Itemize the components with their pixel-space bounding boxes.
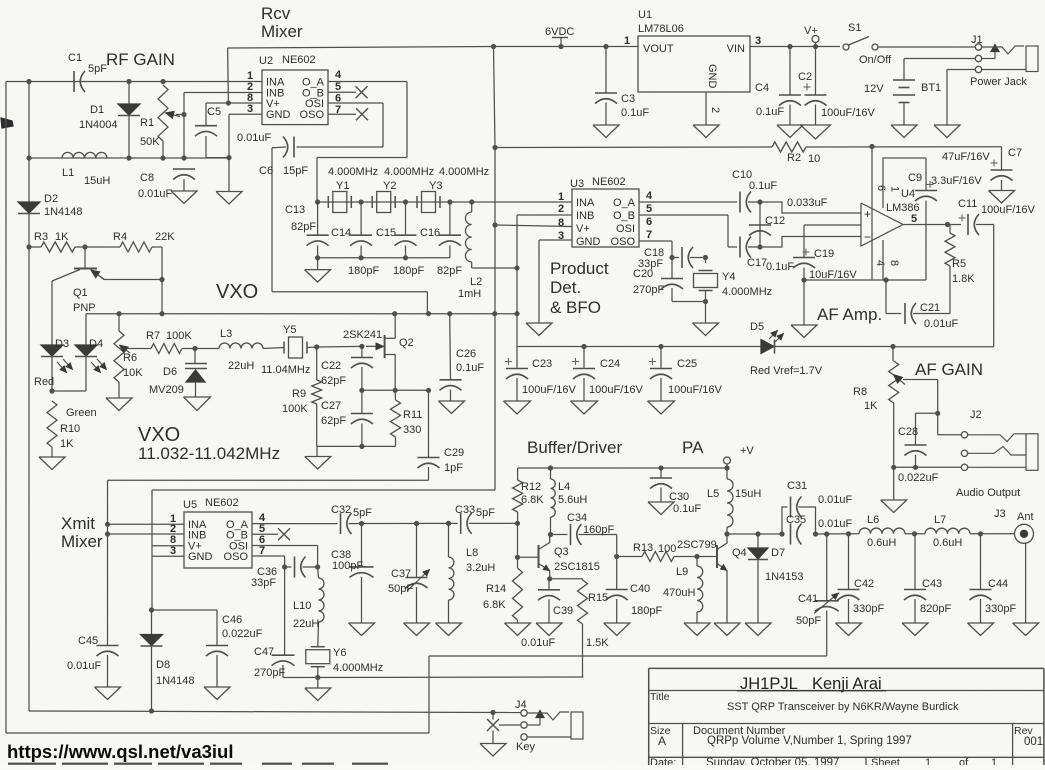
- svg-text:C26: C26: [456, 348, 476, 360]
- svg-text:1K: 1K: [55, 231, 69, 243]
- svg-text:Audio Output: Audio Output: [956, 487, 1020, 499]
- svg-text:3: 3: [170, 545, 176, 557]
- svg-text:4.000MHz: 4.000MHz: [333, 662, 383, 674]
- svg-text:100K: 100K: [166, 330, 192, 342]
- svg-text:L10: L10: [293, 600, 311, 612]
- svg-text:RF GAIN: RF GAIN: [106, 50, 175, 69]
- svg-text:0.6uH: 0.6uH: [933, 537, 962, 549]
- svg-text:C8: C8: [140, 172, 154, 184]
- svg-text:−: −: [864, 230, 871, 244]
- svg-text:0.1uF: 0.1uF: [756, 106, 784, 118]
- svg-text:L7: L7: [934, 514, 946, 526]
- svg-text:L4: L4: [558, 481, 570, 493]
- svg-text:C9: C9: [908, 172, 922, 184]
- svg-text:C45: C45: [78, 635, 98, 647]
- svg-text:OSI: OSI: [616, 223, 635, 235]
- svg-text:100uF/16V: 100uF/16V: [981, 204, 1035, 216]
- svg-text:C44: C44: [988, 578, 1008, 590]
- svg-text:VXO: VXO: [138, 424, 180, 446]
- svg-text:Title: Title: [650, 691, 670, 703]
- svg-text:Ant: Ant: [1017, 511, 1034, 523]
- svg-text:R8: R8: [853, 386, 867, 398]
- svg-text:1.8K: 1.8K: [952, 273, 975, 285]
- svg-text:GND: GND: [706, 64, 718, 89]
- svg-text:0.01uF: 0.01uF: [67, 660, 102, 672]
- svg-text:L8: L8: [466, 547, 478, 559]
- svg-text:LM78L06: LM78L06: [638, 23, 684, 35]
- svg-text:R11: R11: [403, 409, 422, 421]
- svg-text:Rcv: Rcv: [261, 4, 291, 23]
- svg-text:0.022uF: 0.022uF: [898, 472, 939, 484]
- svg-text:10K: 10K: [123, 367, 143, 379]
- svg-text:0.1uF: 0.1uF: [749, 180, 777, 192]
- svg-text:O_B: O_B: [613, 210, 635, 222]
- svg-text:10uF/16V: 10uF/16V: [809, 269, 857, 281]
- svg-text:D1: D1: [90, 104, 104, 116]
- svg-text:50pF: 50pF: [796, 615, 821, 627]
- svg-text:4.000MHz: 4.000MHz: [722, 286, 772, 298]
- svg-text:C41: C41: [798, 593, 818, 605]
- svg-text:5: 5: [911, 213, 917, 225]
- svg-text:100uF/16V: 100uF/16V: [522, 384, 576, 396]
- svg-text:0.1uF: 0.1uF: [621, 107, 649, 119]
- svg-text:C33: C33: [455, 504, 475, 516]
- svg-text:1: 1: [558, 191, 564, 203]
- svg-text:6VDC: 6VDC: [545, 26, 574, 38]
- svg-text:6.8K: 6.8K: [483, 599, 506, 611]
- svg-text:15pF: 15pF: [283, 165, 308, 177]
- svg-text:+: +: [864, 207, 871, 221]
- svg-text:6: 6: [875, 185, 887, 191]
- svg-text:100: 100: [658, 543, 676, 555]
- svg-text:Y5: Y5: [283, 324, 296, 336]
- svg-text:1N4148: 1N4148: [44, 206, 83, 218]
- svg-text:MV209: MV209: [149, 384, 184, 396]
- svg-text:12V: 12V: [864, 83, 884, 95]
- svg-text:https://www.qsl.net/va3iul: https://www.qsl.net/va3iul: [7, 741, 233, 762]
- svg-text:O_A: O_A: [613, 197, 636, 209]
- svg-text:5pF: 5pF: [476, 507, 495, 519]
- svg-text:Sunday, October 05, 1997: Sunday, October 05, 1997: [706, 757, 839, 765]
- svg-text:Q2: Q2: [399, 337, 414, 349]
- svg-text:L9: L9: [676, 566, 688, 578]
- svg-text:INA: INA: [576, 197, 595, 209]
- svg-text:NE602: NE602: [592, 176, 626, 188]
- svg-text:NE602: NE602: [282, 54, 316, 66]
- svg-text:4.000MHz: 4.000MHz: [384, 166, 434, 178]
- svg-text:3: 3: [247, 103, 253, 115]
- svg-text:C21: C21: [920, 302, 940, 314]
- svg-text:Q3: Q3: [554, 546, 569, 558]
- svg-text:R10: R10: [60, 423, 80, 435]
- svg-text:82pF: 82pF: [437, 265, 462, 277]
- svg-text:0.01uF: 0.01uF: [138, 188, 173, 200]
- svg-text:R5: R5: [952, 258, 966, 270]
- svg-text:C32: C32: [331, 504, 351, 516]
- svg-text:NE602: NE602: [205, 497, 239, 509]
- svg-text:GND: GND: [188, 551, 213, 563]
- svg-text:C42: C42: [854, 578, 874, 590]
- svg-text:U4: U4: [901, 188, 915, 200]
- svg-text:J4: J4: [515, 699, 527, 711]
- svg-text:V+: V+: [804, 25, 818, 37]
- svg-text:C6: C6: [259, 165, 273, 177]
- svg-text:15uH: 15uH: [735, 488, 761, 500]
- svg-text:Q4: Q4: [732, 547, 747, 559]
- svg-text:D7: D7: [771, 547, 785, 559]
- svg-text:C22: C22: [321, 360, 341, 372]
- svg-text:OSO: OSO: [300, 109, 325, 121]
- svg-text:33pF: 33pF: [251, 577, 276, 589]
- svg-text:001: 001: [1024, 736, 1043, 748]
- svg-text:4.000MHz: 4.000MHz: [328, 166, 378, 178]
- svg-text:D8: D8: [156, 659, 170, 671]
- svg-text:1N4004: 1N4004: [79, 119, 118, 131]
- svg-text:C46: C46: [222, 614, 242, 626]
- svg-text:C25: C25: [677, 358, 697, 370]
- svg-text:PNP: PNP: [73, 302, 96, 314]
- svg-text:8: 8: [558, 217, 564, 229]
- svg-text:L2: L2: [470, 276, 482, 288]
- svg-text:& BFO: & BFO: [550, 298, 601, 317]
- svg-text:100uF/16V: 100uF/16V: [589, 384, 643, 396]
- svg-text:62pF: 62pF: [321, 415, 346, 427]
- svg-text:0.01uF: 0.01uF: [818, 494, 853, 506]
- svg-text:82pF: 82pF: [291, 221, 316, 233]
- svg-text:C30: C30: [669, 491, 689, 503]
- svg-text:Mixer: Mixer: [61, 532, 103, 551]
- svg-text:Q1: Q1: [73, 287, 88, 299]
- svg-text:C35: C35: [786, 514, 806, 526]
- svg-text:Buffer/Driver: Buffer/Driver: [527, 438, 622, 457]
- svg-text:C29: C29: [444, 447, 464, 459]
- svg-text:Red Vref=1.7V: Red Vref=1.7V: [750, 365, 823, 377]
- svg-text:Date:: Date:: [650, 757, 676, 765]
- svg-text:C13: C13: [285, 204, 305, 216]
- svg-text:5.6uH: 5.6uH: [558, 494, 587, 506]
- svg-text:5pF: 5pF: [353, 507, 372, 519]
- svg-text:0.6uH: 0.6uH: [867, 537, 896, 549]
- svg-text:INB: INB: [576, 210, 594, 222]
- svg-text:5: 5: [646, 203, 652, 215]
- svg-text:Power Jack: Power Jack: [970, 76, 1027, 88]
- svg-text:D4: D4: [89, 338, 103, 350]
- svg-text:270pF: 270pF: [633, 284, 664, 296]
- svg-text:BT1: BT1: [921, 82, 941, 94]
- svg-text:4: 4: [874, 260, 886, 266]
- svg-text:0.1uF: 0.1uF: [766, 261, 794, 273]
- svg-text:OSO: OSO: [224, 551, 249, 563]
- svg-text:D6: D6: [163, 366, 177, 378]
- svg-text:R6: R6: [123, 352, 137, 364]
- svg-text:R14: R14: [486, 583, 506, 595]
- svg-text:Product: Product: [550, 259, 609, 278]
- svg-text:22K: 22K: [155, 231, 175, 243]
- svg-text:4.000MHz: 4.000MHz: [439, 166, 489, 178]
- svg-text:180pF: 180pF: [631, 605, 662, 617]
- svg-text:U3: U3: [570, 178, 584, 190]
- svg-text:C1: C1: [68, 52, 82, 64]
- svg-text:50pF: 50pF: [388, 583, 413, 595]
- svg-text:1pF: 1pF: [444, 462, 463, 474]
- svg-text:C39: C39: [553, 605, 573, 617]
- svg-text:R3: R3: [34, 231, 48, 243]
- svg-text:Sheet: Sheet: [871, 757, 900, 765]
- svg-text:R2: R2: [787, 152, 801, 164]
- svg-text:R7: R7: [146, 330, 160, 342]
- svg-text:C19: C19: [814, 248, 834, 260]
- svg-text:C24: C24: [600, 358, 620, 370]
- svg-text:VIN: VIN: [727, 43, 745, 55]
- svg-text:C23: C23: [532, 358, 552, 370]
- svg-text:C11: C11: [958, 198, 977, 210]
- svg-text:1.5K: 1.5K: [586, 637, 609, 649]
- svg-text:2SC799: 2SC799: [677, 539, 717, 551]
- svg-text:V+: V+: [576, 223, 590, 235]
- svg-text:Det.: Det.: [550, 278, 581, 297]
- svg-text:A: A: [658, 734, 666, 748]
- svg-text:C40: C40: [630, 583, 650, 595]
- svg-text:1: 1: [889, 186, 901, 192]
- svg-text:1K: 1K: [60, 438, 74, 450]
- svg-text:L1: L1: [62, 167, 74, 179]
- svg-text:C27: C27: [321, 400, 341, 412]
- svg-text:1N4148: 1N4148: [156, 675, 195, 687]
- svg-text:100uF/16V: 100uF/16V: [821, 107, 875, 119]
- svg-text:11.04MHz: 11.04MHz: [261, 364, 310, 376]
- svg-text:R9: R9: [292, 388, 306, 400]
- svg-text:4: 4: [646, 190, 653, 202]
- svg-text:2SC1815: 2SC1815: [554, 561, 600, 573]
- svg-text:47uF/16V: 47uF/16V: [942, 151, 990, 163]
- svg-text:470uH: 470uH: [663, 587, 695, 599]
- svg-text:0.01uF: 0.01uF: [521, 637, 556, 649]
- svg-text:3: 3: [755, 35, 761, 47]
- svg-text:4: 4: [335, 69, 342, 81]
- svg-text:270pF: 270pF: [254, 667, 285, 679]
- svg-text:820pF: 820pF: [920, 603, 951, 615]
- svg-text:0.01uF: 0.01uF: [818, 518, 853, 530]
- svg-text:of: of: [959, 757, 969, 765]
- svg-text:C28: C28: [898, 426, 918, 438]
- svg-text:0.1uF: 0.1uF: [456, 362, 484, 374]
- svg-text:7: 7: [646, 229, 652, 241]
- svg-text:C4: C4: [755, 82, 769, 94]
- svg-text:5: 5: [335, 81, 341, 93]
- svg-text:U2: U2: [259, 55, 273, 67]
- svg-text:Green: Green: [66, 407, 97, 419]
- svg-text:Y2: Y2: [383, 180, 396, 192]
- svg-text:62pF: 62pF: [321, 375, 346, 387]
- svg-text:7: 7: [259, 545, 265, 557]
- svg-text:100pF: 100pF: [332, 560, 363, 572]
- svg-text:R13: R13: [633, 542, 653, 554]
- svg-text:C31: C31: [787, 480, 807, 492]
- svg-text:GND: GND: [266, 109, 291, 121]
- svg-text:330: 330: [403, 424, 421, 436]
- svg-text:Mixer: Mixer: [261, 22, 303, 41]
- svg-text:Y1: Y1: [336, 180, 349, 192]
- svg-text:C37: C37: [391, 568, 411, 580]
- svg-text:180pF: 180pF: [393, 265, 424, 277]
- svg-text:OSO: OSO: [611, 236, 636, 248]
- svg-text:C12: C12: [765, 215, 785, 227]
- svg-text:C5: C5: [207, 106, 221, 118]
- svg-text:11.032-11.042MHz: 11.032-11.042MHz: [138, 444, 280, 463]
- svg-text:S1: S1: [848, 22, 861, 34]
- svg-text:3.3uF/16V: 3.3uF/16V: [931, 175, 982, 187]
- svg-text:6.8K: 6.8K: [521, 494, 544, 506]
- svg-text:U5: U5: [183, 499, 197, 511]
- svg-text:C14: C14: [331, 227, 351, 239]
- svg-text:J2: J2: [970, 409, 982, 421]
- svg-text:1: 1: [624, 35, 630, 47]
- svg-text:R12: R12: [521, 481, 541, 493]
- svg-text:10: 10: [808, 153, 820, 165]
- svg-text:Key: Key: [516, 741, 535, 753]
- svg-text:C7: C7: [1008, 147, 1022, 159]
- svg-text:3.2uH: 3.2uH: [466, 562, 495, 574]
- svg-text:C43: C43: [922, 578, 942, 590]
- svg-text:5pF: 5pF: [88, 63, 107, 75]
- svg-text:L6: L6: [867, 514, 879, 526]
- svg-text:1: 1: [991, 757, 997, 765]
- svg-text:1N4153: 1N4153: [765, 571, 804, 583]
- svg-text:C15: C15: [376, 227, 396, 239]
- svg-text:1K: 1K: [864, 400, 878, 412]
- svg-text:0.022uF: 0.022uF: [222, 628, 263, 640]
- svg-text:SST QRP Transceiver by N6KR/Wa: SST QRP Transceiver by N6KR/Wayne Burdic…: [727, 701, 959, 713]
- svg-text:160pF: 160pF: [583, 524, 614, 536]
- svg-text:C2: C2: [798, 71, 812, 83]
- svg-text:2SK241: 2SK241: [343, 329, 382, 341]
- svg-text:Y3: Y3: [429, 180, 442, 192]
- svg-text:180pF: 180pF: [348, 265, 379, 277]
- svg-text:0.1uF: 0.1uF: [673, 503, 701, 515]
- svg-text:Y6: Y6: [333, 647, 346, 659]
- svg-text:C16: C16: [420, 227, 440, 239]
- svg-text:0.01uF: 0.01uF: [924, 318, 959, 330]
- svg-text:15uH: 15uH: [84, 175, 110, 187]
- svg-text:D5: D5: [750, 321, 764, 333]
- svg-text:D2: D2: [44, 193, 58, 205]
- svg-text:C34: C34: [567, 512, 587, 524]
- svg-text:22uH: 22uH: [293, 618, 319, 630]
- svg-text:D3: D3: [55, 338, 69, 350]
- svg-text:Y4: Y4: [722, 271, 735, 283]
- svg-text:100uF/16V: 100uF/16V: [668, 384, 722, 396]
- svg-text:330pF: 330pF: [985, 603, 1016, 615]
- svg-text:L5: L5: [707, 488, 719, 500]
- svg-text:QRPp Volume V,Number 1, Spring: QRPp Volume V,Number 1, Spring 1997: [707, 735, 912, 747]
- svg-text:VOUT: VOUT: [643, 43, 674, 55]
- svg-text:Xmit: Xmit: [61, 514, 95, 533]
- svg-text:1mH: 1mH: [458, 288, 481, 300]
- svg-text:J3: J3: [994, 508, 1006, 520]
- svg-text:AF GAIN: AF GAIN: [915, 360, 983, 379]
- svg-text:0.033uF: 0.033uF: [787, 197, 828, 209]
- svg-text:GND: GND: [576, 236, 601, 248]
- svg-text:PA: PA: [682, 438, 704, 457]
- svg-text:R15: R15: [588, 592, 608, 604]
- svg-text:+V: +V: [740, 445, 754, 457]
- svg-text:C17: C17: [747, 257, 767, 269]
- svg-text:22uH: 22uH: [228, 360, 254, 372]
- svg-text:50K: 50K: [140, 136, 160, 148]
- svg-text:R4: R4: [113, 231, 127, 243]
- svg-text:1: 1: [925, 757, 931, 765]
- svg-text:U1: U1: [638, 9, 652, 21]
- svg-text:L3: L3: [220, 328, 232, 340]
- svg-text:AF Amp.: AF Amp.: [817, 305, 882, 324]
- svg-text:2: 2: [709, 107, 721, 113]
- svg-text:VXO: VXO: [216, 281, 258, 303]
- svg-text:330pF: 330pF: [853, 603, 884, 615]
- svg-text:Red: Red: [34, 376, 54, 388]
- svg-text:C20: C20: [633, 268, 653, 280]
- svg-text:100K: 100K: [282, 403, 308, 415]
- svg-text:On/Off: On/Off: [859, 54, 892, 66]
- svg-text:2: 2: [558, 203, 564, 215]
- svg-text:8: 8: [888, 260, 900, 266]
- svg-text:R1: R1: [140, 117, 154, 129]
- svg-text:6: 6: [646, 216, 652, 228]
- svg-text:C47: C47: [254, 646, 274, 658]
- svg-text:0.01uF: 0.01uF: [237, 132, 272, 144]
- svg-text:C3: C3: [621, 93, 635, 105]
